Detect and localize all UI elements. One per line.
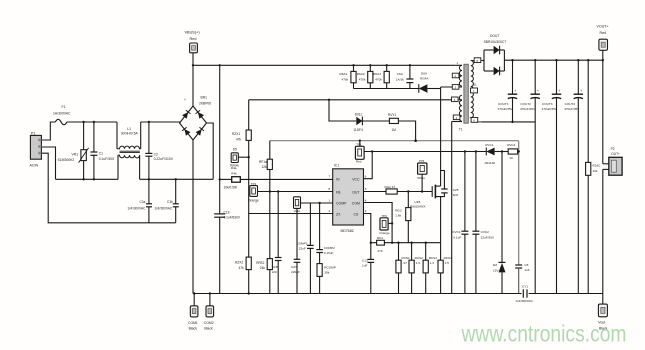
capacitor C3b (154, 178, 179, 223)
capacitor C2 (145, 121, 173, 181)
diode D911 (328, 99, 390, 132)
resistor R4A (219, 166, 333, 190)
capacitor CVCC2 (472, 150, 495, 293)
svg-text:Black: Black (204, 327, 213, 331)
wire COM (364, 203, 394, 244)
resistor RG2 (395, 190, 411, 242)
svg-text:+: + (514, 89, 516, 93)
svg-text:COM: COM (352, 202, 360, 206)
op-amp-controller IC1 BD7682 (329, 163, 367, 232)
svg-text:C1: C1 (99, 152, 103, 156)
svg-text:470k: 470k (375, 77, 382, 81)
resistor RCS4 (438, 243, 452, 294)
bridge BR1 (180, 96, 212, 141)
svg-text:COMP: COMP (336, 202, 347, 206)
svg-text:2nF: 2nF (272, 270, 277, 274)
svg-text:0.1uF: 0.1uF (453, 235, 461, 239)
svg-text:470uF/35V: 470uF/35V (498, 107, 514, 111)
terminal VOUT- (598, 294, 607, 331)
svg-text:UF8: UF8 (415, 200, 421, 204)
capacitor C3a (127, 179, 152, 223)
svg-text:IC1: IC1 (334, 163, 339, 167)
svg-text:CVC2: CVC2 (481, 230, 490, 234)
svg-text:RG2: RG2 (395, 208, 402, 212)
connector P1 (30, 131, 42, 167)
svg-text:1M: 1M (392, 128, 397, 132)
wire secondary ground (481, 121, 535, 123)
svg-text:1nF/300VAC: 1nF/300VAC (515, 299, 533, 303)
svg-text:C8: C8 (524, 263, 528, 267)
svg-text:COUT3: COUT3 (542, 102, 553, 106)
svg-text:220pF: 220pF (291, 270, 300, 274)
svg-text:1A/1k: 1A/1k (396, 77, 404, 81)
svg-text:R6A1: R6A1 (340, 72, 348, 76)
wire P1 earth drop (41, 153, 175, 223)
svg-text:+: + (184, 98, 186, 102)
wire VOUT+ rail (504, 59, 602, 61)
svg-text:R4b: R4b (231, 171, 237, 175)
svg-text:R6015ANX: R6015ANX (410, 205, 425, 209)
svg-text:RZX1: RZX1 (232, 132, 240, 136)
svg-text:RZX2: RZX2 (235, 260, 243, 264)
svg-text:0.1uF/630V: 0.1uF/630V (224, 215, 241, 219)
svg-text:D5: D5 (233, 147, 237, 151)
diode D6A (419, 72, 441, 93)
varistor VR1 (58, 121, 89, 181)
svg-text:TP3: TP3 (382, 214, 388, 218)
svg-text:VOUT+: VOUT+ (597, 25, 609, 29)
svg-text:47k: 47k (239, 266, 245, 270)
svg-text:Orange: Orange (248, 198, 259, 202)
svg-text:C3a: C3a (140, 200, 146, 204)
svg-text:10: 10 (509, 156, 513, 160)
svg-text:IN: IN (336, 178, 340, 182)
svg-text:+: + (537, 89, 539, 93)
svg-text:OUT: OUT (352, 190, 360, 194)
svg-text:11DF4: 11DF4 (353, 128, 363, 132)
terminal COM1 (188, 292, 198, 330)
svg-text:COUT1: COUT1 (498, 102, 509, 106)
svg-text:COUT2: COUT2 (520, 102, 531, 106)
capacitor COUT4 (564, 59, 583, 294)
svg-text:RCS2: RCS2 (415, 256, 424, 260)
svg-text:RCS3: RCS3 (429, 256, 438, 260)
mosfet Q1 (397, 185, 440, 243)
svg-text:2KBP06: 2KBP06 (199, 101, 211, 105)
svg-text:VR1: VR1 (72, 152, 79, 156)
zener DZ1 (493, 150, 506, 293)
diode DVC1 (484, 143, 508, 165)
svg-text:47k: 47k (236, 137, 242, 141)
svg-text:RG4A: RG4A (420, 77, 429, 81)
diode DOUT (482, 34, 506, 76)
capacitor C1E bulk (214, 64, 241, 293)
resistor RCOMP (317, 264, 336, 294)
svg-text:COMP1,: COMP1, (296, 242, 308, 246)
capacitor C6A (396, 64, 414, 88)
svg-text:RCS4: RCS4 (444, 256, 453, 260)
svg-text:RFB2: RFB2 (256, 261, 264, 265)
svg-text:TP1: TP1 (356, 142, 362, 146)
capacitor C13 (362, 242, 374, 294)
svg-text:RCOMP: RCOMP (324, 265, 336, 269)
capacitor C8 (515, 263, 530, 294)
svg-text:L1: L1 (127, 127, 131, 131)
svg-text:RVY1: RVY1 (388, 113, 396, 117)
fuse F1 (53, 105, 71, 125)
svg-text:1.3: 1.3 (416, 261, 421, 265)
svg-text:SBR10U300CT: SBR10U300CT (484, 40, 507, 44)
svg-text:R6A2: R6A2 (357, 72, 365, 76)
resistor RFB1 (259, 141, 272, 259)
svg-text:C3b: C3b (167, 200, 173, 204)
terminal VOUT+ (597, 25, 609, 62)
choke L1 (117, 122, 141, 179)
resistor RFB2 (256, 190, 272, 293)
resistor R6A3 (373, 64, 389, 88)
svg-text:F1: F1 (62, 105, 66, 109)
resistor RCS1 (396, 242, 410, 294)
svg-text:VBUS(+): VBUS(+) (185, 31, 201, 35)
svg-text:0.1uF/305: 0.1uF/305 (99, 157, 114, 161)
svg-text:D911: D911 (355, 113, 363, 117)
svg-text:1A/300VAC: 1A/300VAC (53, 111, 71, 115)
svg-text:C2: C2 (154, 152, 158, 156)
svg-text:24k: 24k (260, 266, 266, 270)
wire VCC node (364, 150, 487, 178)
wire VBUS rail (192, 64, 456, 66)
svg-text:T1: T1 (459, 127, 463, 131)
capacitor CZX (291, 208, 300, 293)
svg-text:Red: Red (190, 37, 197, 41)
resistor RF4 (371, 236, 441, 253)
svg-text:DZ: DZ (493, 263, 497, 267)
wire bridge DC- down to ground rail (192, 140, 194, 294)
svg-text:C6A: C6A (397, 72, 404, 76)
svg-text:12k: 12k (262, 165, 268, 169)
svg-text:FB: FB (336, 190, 341, 194)
svg-text:ZX: ZX (336, 212, 341, 216)
svg-text:RCS1: RCS1 (402, 256, 411, 260)
resistor RCS2 (409, 242, 423, 294)
wire live rail to bridge (67, 121, 117, 123)
wire FB (258, 191, 333, 193)
svg-text:P1: P1 (31, 131, 35, 135)
svg-text:COM1: COM1 (188, 321, 198, 325)
capacitor C1 (90, 121, 114, 181)
wire snubber bottom (354, 88, 419, 90)
terminal COM2 (204, 292, 214, 330)
svg-text:22nF: 22nF (299, 247, 306, 251)
svg-text:Orange: Orange (379, 231, 390, 235)
wire aux ground (451, 122, 453, 294)
wire bridge AC2 (207, 123, 214, 179)
terminal VBUS (185, 31, 201, 66)
resistor R6A2 (357, 64, 373, 88)
svg-text:470uF/35V: 470uF/35V (564, 107, 580, 111)
svg-text:RF1a: RF1a (259, 160, 267, 164)
svg-text:www.cntronics.com: www.cntronics.com (461, 321, 627, 347)
capacitor COUT1 (498, 59, 518, 122)
svg-text:S1M300K2: S1M300K2 (58, 158, 75, 162)
svg-text:+: + (558, 89, 560, 93)
wire VOUT- riser (602, 169, 604, 293)
test point TP6 white (417, 159, 427, 193)
wire neutral line left (56, 178, 119, 180)
svg-text:30mH/0.5A: 30mH/0.5A (121, 132, 139, 136)
svg-text:6n8: 6n8 (453, 193, 458, 197)
svg-text:CVC1,: CVC1, (452, 230, 461, 234)
svg-text:1nF/300VAC: 1nF/300VAC (154, 207, 173, 211)
svg-text:470k: 470k (359, 77, 366, 81)
wire ground rail (193, 293, 603, 295)
test point TP3 orange on COM (379, 214, 393, 235)
svg-text:1.6k: 1.6k (395, 213, 401, 217)
svg-text:470: 470 (377, 249, 382, 253)
svg-text:D6A: D6A (421, 72, 428, 76)
svg-text:R16C: R16C (593, 163, 602, 167)
svg-text:VCC: VCC (352, 178, 360, 182)
svg-text:RF4: RF4 (377, 236, 383, 240)
wire VCC bus grey (270, 141, 519, 265)
svg-text:1.5: 1.5 (445, 261, 450, 265)
svg-text:R6A3: R6A3 (373, 72, 381, 76)
resistor RVC2 (507, 143, 520, 160)
resistor RZX1 (232, 100, 251, 257)
svg-text:1nF/300VAC: 1nF/300VAC (127, 207, 146, 211)
wire COMP (301, 202, 333, 204)
capacitor CVCC1 (452, 150, 468, 293)
svg-text:+: + (580, 89, 582, 93)
svg-text:1uF: 1uF (362, 263, 367, 267)
capacitor COUT3 (542, 59, 562, 294)
svg-text:Red: Red (356, 160, 362, 164)
test point TP red on VCC (355, 140, 364, 164)
svg-text:CZX: CZX (291, 265, 297, 269)
resistor RVY1 (388, 113, 416, 141)
wire P1 live to fuse (41, 122, 55, 140)
svg-text:RVC2: RVC2 (507, 143, 515, 147)
resistor R6A1 (340, 64, 357, 88)
capacitor C25 drain-source (441, 171, 459, 198)
svg-text:ACIN: ACIN (30, 163, 39, 167)
capacitor COMP2 (316, 202, 335, 264)
svg-text:OUT+: OUT+ (611, 152, 620, 156)
connector P2 (603, 147, 622, 175)
resistor RG1 (364, 185, 398, 194)
wire drain (440, 87, 442, 186)
svg-text:COUT4: COUT4 (565, 102, 576, 106)
wire aux winding line (249, 99, 453, 101)
svg-text:.47: .47 (403, 261, 408, 265)
svg-text:10k/0.5W: 10k/0.5W (224, 185, 237, 189)
wire bridge DC+ (192, 65, 194, 106)
svg-text:1uF: 1uF (524, 268, 529, 272)
transformer T1 (441, 58, 484, 132)
resistor R16 bleeder (586, 59, 602, 294)
svg-text:COMP2: COMP2 (324, 246, 335, 250)
test point TP4 orange on FB (248, 182, 259, 203)
svg-text:DOUT: DOUT (490, 34, 499, 38)
svg-text:C13: C13 (362, 259, 368, 263)
svg-text:COM2: COM2 (204, 321, 214, 325)
svg-text:10k: 10k (593, 169, 598, 173)
svg-text:BR1: BR1 (201, 96, 208, 100)
svg-text:0.22uF/310V: 0.22uF/310V (154, 157, 174, 161)
capacitor CFB (272, 190, 282, 293)
svg-text:C25: C25 (453, 188, 459, 192)
svg-text:TP6: TP6 (419, 159, 425, 163)
svg-text:39k: 39k (324, 270, 329, 274)
svg-text:White: White (417, 176, 425, 180)
svg-text:470uF/35V: 470uF/35V (542, 107, 558, 111)
svg-text:22uF/35V: 22uF/35V (481, 235, 495, 239)
resistor RCS3 (423, 242, 437, 294)
svg-text:470k: 470k (342, 77, 349, 81)
svg-text:Black: Black (189, 327, 198, 331)
capacitor CY1 (515, 284, 533, 303)
wire neutral line right (140, 178, 214, 180)
capacitor COMP1 (296, 203, 313, 294)
resistor RZX2 (235, 257, 251, 295)
capacitor COUT2 (520, 59, 540, 294)
wire CS (364, 214, 371, 243)
svg-text:C1E: C1E (224, 210, 230, 214)
svg-text:CS: CS (354, 212, 360, 216)
svg-text:15V: 15V (493, 268, 499, 272)
svg-text:CFB: CFB (272, 265, 278, 269)
svg-text:0.15uF: 0.15uF (324, 251, 334, 255)
svg-text:P2: P2 (611, 147, 615, 151)
wire VOUT+ drop to P2 (602, 60, 604, 164)
wire ZX (249, 213, 333, 215)
test point TP5 yellow (230, 147, 250, 167)
svg-text:Red: Red (600, 31, 607, 35)
svg-text:470uF/35V: 470uF/35V (520, 107, 536, 111)
svg-text:BD7682: BD7682 (341, 229, 354, 233)
test point TP2 on COMP (294, 197, 301, 213)
svg-text:1.3: 1.3 (430, 261, 435, 265)
svg-text:DVC1: DVC1 (485, 143, 494, 147)
wire P1 neutral (41, 147, 55, 179)
svg-text:Yellow: Yellow (230, 164, 240, 168)
svg-text:CY1: CY1 (522, 284, 528, 288)
svg-text:1N4148: 1N4148 (484, 161, 495, 165)
svg-text:TP4: TP4 (251, 182, 257, 186)
svg-text:RG1 47: RG1 47 (385, 185, 396, 189)
